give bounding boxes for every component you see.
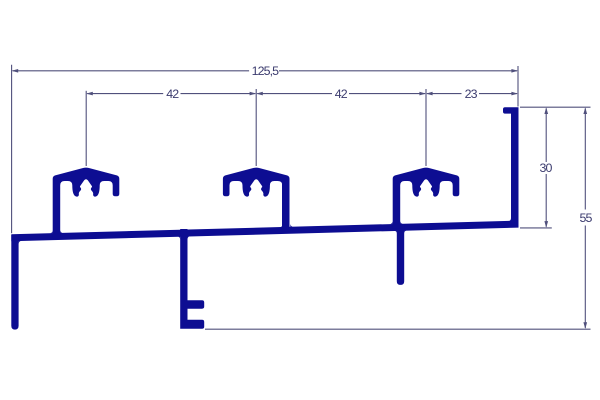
extension line top of right wall: [520, 106, 591, 108]
extension line bottom of right wall: [520, 227, 552, 229]
extension line crown 2 apex: [255, 89, 257, 166]
svg-text:42: 42: [166, 87, 179, 101]
svg-text:125,5: 125,5: [252, 64, 280, 78]
dimension 42 (second): [257, 93, 332, 95]
dimension 125,5: [13, 70, 250, 72]
dimension 30: [545, 108, 547, 162]
extension line crown 1 apex: [85, 91, 87, 166]
svg-text:30: 30: [540, 161, 553, 175]
right wall with top lip: [503, 107, 519, 225]
extension line right edge: [517, 66, 519, 107]
dimension 42 (first): [87, 93, 163, 95]
extension line profile bottom: [205, 328, 591, 330]
svg-text:23: 23: [465, 87, 478, 101]
svg-text:55: 55: [580, 211, 593, 225]
snap-fit crown 2: [223, 168, 290, 232]
dimension 55: [584, 108, 586, 209]
junction fillets: [19, 241, 22, 244]
main slanted web: [11, 221, 518, 242]
dimension 23: [427, 93, 462, 95]
extension line left edge: [11, 65, 13, 233]
extension line crown 3 apex: [425, 89, 427, 166]
svg-text:42: 42: [335, 87, 348, 101]
snap-fit crown 3: [393, 168, 460, 229]
middle leg with E-shaped foot: [180, 229, 204, 329]
short stub leg under third crown: [397, 224, 404, 285]
left end leg: [11, 235, 18, 330]
snap-fit crown 1: [53, 168, 120, 238]
